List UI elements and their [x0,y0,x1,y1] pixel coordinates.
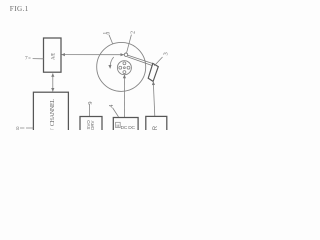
svg-text:M: M [116,124,119,128]
hub screw left [119,66,122,69]
wire leader 2 to head [127,35,132,53]
svg-text:DRV: DRV [90,121,95,130]
box A/E (preamp) [44,38,62,72]
head 2 [124,53,127,56]
disk platter 10 [97,42,146,91]
wire A/E to head (double arrow) [62,54,124,56]
hub screw top [123,62,126,65]
box CHANNEL (R/W channel) [33,92,68,133]
hub screw bottom [123,71,126,74]
box VCM driver [146,116,167,133]
box spindle driver 4 [113,118,138,134]
svg-text:7: 7 [25,56,28,62]
wire leader 9 to servo box [89,104,91,116]
spindle hub [117,61,131,75]
wire hub to motor box [123,75,125,118]
svg-text:9: 9 [87,102,94,105]
svg-text:0: 0 [106,31,112,34]
wire leader 3 to VCM [154,57,162,66]
hub center [124,67,126,69]
svg-text:R: R [153,125,159,130]
wire leader 7 to A/E [28,57,43,60]
svg-text:CHANNEL: CHANNEL [50,99,56,126]
rotation arrow [110,57,114,68]
wire leader 10 to disk [109,35,113,44]
motor symbol M [116,122,121,127]
svg-text:2: 2 [131,31,137,34]
svg-text:8: 8 [16,126,19,130]
hub screw right [127,66,130,69]
svg-text:FIG.1: FIG.1 [10,5,29,13]
svg-text:4: 4 [109,105,115,108]
box servo 9 [80,117,102,134]
wire VCM to driver box [153,82,155,117]
svg-text:A/E: A/E [51,53,56,60]
wire leader 4 to motor box [113,108,119,117]
wire leader 8 to CHANNEL [20,127,33,129]
svg-text:DC DC: DC DC [121,125,136,130]
wire A/E to CHANNEL (double arrow) [52,73,54,91]
voice coil motor 3 (tilted rect) [148,63,158,81]
actuator arm [127,55,153,65]
svg-text:3: 3 [163,52,170,56]
